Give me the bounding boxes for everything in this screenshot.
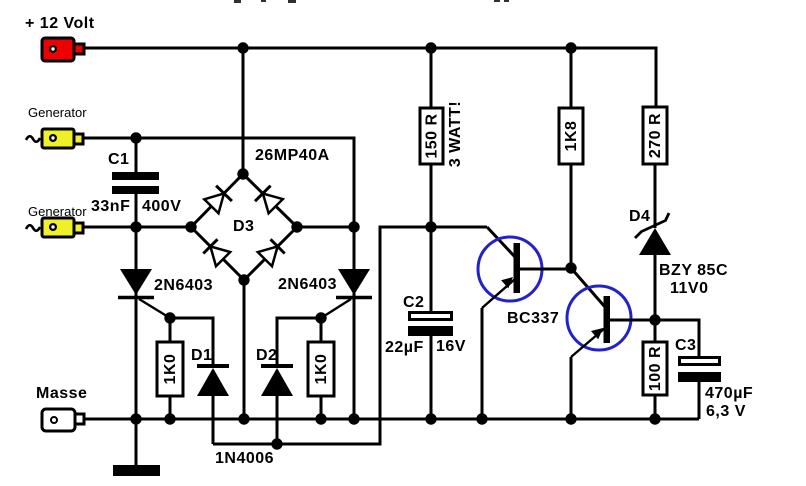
svg-text:+ 12 Volt: + 12 Volt (25, 15, 95, 32)
svg-text:D1: D1 (191, 347, 212, 364)
resistor R3 150R (420, 101, 464, 311)
svg-text:1N4006: 1N4006 (215, 450, 274, 467)
node bridge left (185, 221, 196, 232)
svg-text:400V: 400V (142, 198, 181, 215)
node generator top / C1 (130, 132, 141, 143)
diamond edges (191, 174, 243, 227)
node gate right (315, 312, 326, 323)
wire bridge right to SCR2 (297, 226, 354, 229)
resistor R5 270R (643, 107, 667, 228)
node rail Q1 emitter (476, 413, 487, 424)
wire ground rail (84, 418, 699, 421)
svg-text:C3: C3 (675, 337, 696, 354)
node D2 on sub rail (271, 438, 282, 449)
wire 1K8 branch (570, 48, 573, 110)
node gate left (164, 312, 175, 323)
node SCR2 top (348, 221, 359, 232)
svg-text:1K0: 1K0 (313, 354, 330, 385)
resistor R6 100R (643, 320, 667, 419)
diode D1 (191, 347, 229, 444)
svg-text:16V: 16V (436, 338, 466, 355)
connector +12 Volt (25, 15, 95, 61)
svg-text:3 WATT!: 3 WATT! (447, 101, 464, 167)
node rail 1K0 right (315, 413, 326, 424)
node rail 1K0 left (164, 413, 175, 424)
resistor R2 1K0 right (308, 318, 334, 419)
svg-text:C1: C1 (108, 151, 129, 168)
wire top +12V rail (84, 48, 656, 107)
ground symbol (113, 419, 160, 476)
node rail bridge bottom (238, 413, 249, 424)
transistor Q2 BC337 (567, 268, 655, 419)
svg-text:1K0: 1K0 (162, 354, 179, 385)
wire bridge top feed (242, 48, 245, 176)
diode D3c bottom-left (203, 239, 230, 266)
diode D2 (256, 347, 293, 444)
thyristor Q4 2N6403 right (278, 227, 372, 419)
node zener / Q2 collector / C3 / 100R (649, 314, 660, 325)
svg-text:Masse: Masse (36, 385, 87, 402)
connector Masse (36, 385, 87, 431)
svg-text:270 R: 270 R (647, 113, 664, 158)
resistor R4 1K8 (559, 108, 583, 268)
resistor R1 1K0 left (157, 318, 183, 419)
svg-text:D3: D3 (233, 218, 254, 235)
svg-text:BC337: BC337 (507, 310, 559, 327)
diode D3a top-left (204, 186, 232, 214)
diode D3b top-right (255, 186, 283, 214)
bridge rectifier D3 26MP40A (185, 147, 329, 286)
svg-text:C2: C2 (403, 294, 424, 311)
node top rail at 1K8 (565, 42, 576, 53)
svg-text:1K8: 1K8 (563, 121, 580, 152)
node bridge top (237, 168, 248, 179)
node rail C2 (425, 413, 436, 424)
capacitor C3 (675, 337, 753, 420)
svg-text:22µF: 22µF (385, 339, 424, 356)
svg-text:26MP40A: 26MP40A (255, 147, 330, 164)
svg-text:BZY 85C: BZY 85C (659, 262, 728, 279)
svg-text:11V0: 11V0 (670, 280, 708, 297)
wire generator top to bridge right (83, 138, 354, 227)
node rail Q2 emitter (565, 413, 576, 424)
connector Generator 2 (26, 204, 87, 237)
wire 150R branch (430, 48, 433, 110)
svg-text:33nF: 33nF (91, 198, 130, 215)
svg-text:6,3 V: 6,3 V (706, 403, 746, 420)
connector Generator 1 (26, 105, 87, 148)
svg-text:D4: D4 (629, 208, 650, 225)
node top rail at 150R (425, 42, 436, 53)
node top rail at bridge (237, 42, 248, 53)
wire generator bottom to bridge left (83, 226, 193, 229)
node base feed at 150R (425, 221, 436, 232)
svg-text:2N6403: 2N6403 (278, 276, 337, 293)
node rail SCR1 (130, 413, 141, 424)
diode D3d bottom-right (258, 239, 285, 266)
svg-text:100 R: 100 R (647, 346, 664, 391)
wire 1N4006 sub rail (213, 227, 487, 444)
svg-text:470µF: 470µF (705, 385, 753, 402)
wire bridge bottom to ground rail (243, 280, 246, 419)
zener diode D4 BZY85C (629, 208, 728, 320)
capacitor C2 (385, 294, 466, 419)
svg-text:150 R: 150 R (424, 113, 441, 158)
wire gate left to D1 (170, 318, 213, 364)
wire node to C3 (655, 320, 699, 356)
node bridge right (291, 221, 302, 232)
node rail SCR2 (348, 413, 359, 424)
node rail 100R (649, 413, 660, 424)
svg-text:D2: D2 (256, 347, 277, 364)
thyristor Q3 2N6403 left (118, 227, 213, 419)
svg-text:2N6403: 2N6403 (154, 277, 213, 294)
node Q1 collector / Q2 base / 1K8 (565, 262, 576, 273)
wire gate right to D2 (277, 318, 321, 364)
svg-text:Generator: Generator (28, 105, 87, 120)
capacitor C1 (91, 138, 181, 227)
top edge text fragments (234, 0, 509, 3)
transistor Q1 BC337 (478, 227, 571, 419)
node generator bottom / C1 (130, 221, 141, 232)
node bridge bottom (238, 274, 249, 285)
